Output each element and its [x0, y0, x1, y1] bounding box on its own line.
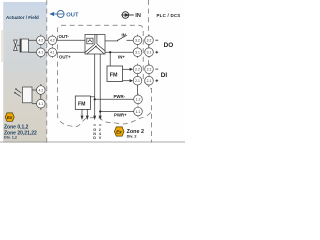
svg-text:Div. 1,2: Div. 1,2 [4, 136, 17, 140]
svg-text:Ex: Ex [116, 129, 122, 134]
svg-text:PLC / DCS: PLC / DCS [157, 13, 181, 18]
IN header icon [121, 12, 134, 19]
svg-text:2.2: 2.2 [147, 68, 152, 72]
wire FM output to terminal 2.2 [123, 68, 131, 70]
fault monitor FM U2 (left, ground monitoring) [75, 96, 90, 109]
OUT header icon [52, 11, 64, 18]
svg-text:3.2: 3.2 [147, 39, 152, 43]
PLC/DCS separator dashed bottom right (R2) [151, 88, 153, 143]
lower terminal vertical stub [40, 84, 42, 110]
GND rail label (vertical) [94, 124, 96, 126]
jog diagonal between R1 and R2 [144, 82, 151, 89]
terminal 3.2 device side (IN-) [133, 35, 142, 46]
svg-text:Ex: Ex [7, 115, 13, 120]
svg-text:4.2: 4.2 [38, 39, 43, 43]
terminal 2.1 device side (FM) [133, 75, 142, 86]
valve V1 stem link [17, 44, 20, 46]
terminal 1.1 (PWR+) [134, 106, 143, 117]
fault monitor FM U3 (output to DI) [107, 66, 123, 82]
terminal 4.2 device side (OUT-) [48, 35, 57, 46]
wires [29, 36, 138, 116]
terminal 4.1 field side (OUT+) [37, 47, 46, 58]
svg-text:IN+: IN+ [118, 55, 125, 60]
junction on IN+ wire feeding FM U3 [109, 51, 111, 53]
FM U3 output arrowhead to 2.1 [130, 79, 134, 82]
svg-text:DI: DI [161, 72, 168, 79]
terminal 4.1 alternate load [37, 98, 46, 109]
svg-text:4.1: 4.1 [50, 51, 55, 55]
wire FM U2 ground stub 1 [81, 110, 83, 116]
svg-text:2.2: 2.2 [135, 68, 140, 72]
valve V1 solenoid coil box [20, 39, 29, 52]
wire IN- row right segment to terminal 3.2 [127, 39, 134, 41]
warm tint left edge [1, 30, 3, 62]
24V rail label (vertical) [99, 124, 101, 126]
wire lower load bottom [32, 103, 41, 105]
zone boundary dashed line left (L1) [46, 0, 48, 145]
terminal 4.2 field side (OUT-) [37, 35, 46, 46]
Ex icon bottom left [5, 113, 14, 121]
LED E1 emission arrowhead 2 [14, 92, 16, 94]
ground arrow 3 (rail GND) [93, 116, 96, 120]
terminal 2.2 PLC side (FM) [145, 64, 154, 75]
svg-text:3.1: 3.1 [135, 51, 140, 55]
terminal 2.1 PLC side (FM) [145, 75, 154, 86]
svg-text:PWR+: PWR+ [114, 112, 127, 117]
terminal 3.1 device side (IN+) [133, 47, 142, 58]
svg-text:Zone 0,1,2: Zone 0,1,2 [4, 124, 29, 130]
wire FM output to terminal 2.1 [123, 80, 131, 82]
page background [0, 0, 185, 145]
svg-text:Div. 2: Div. 2 [127, 134, 137, 138]
wire OUT- row [29, 39, 86, 41]
PLC/DCS separator dashed top right [148, 0, 150, 87]
wire isolator power rail 2 (24V) [99, 54, 101, 116]
svg-text:FM: FM [78, 102, 86, 108]
wire IN- row left segment [105, 40, 118, 42]
switch S1 blade on IN- line [117, 36, 125, 40]
wire lower load top [32, 89, 41, 91]
LED E1 emission arrowhead 1 [15, 89, 17, 91]
Zone 2 dashed boundary around device [57, 25, 150, 126]
terminal 2.2 device side (FM) [133, 64, 142, 75]
svg-text:FM: FM [110, 72, 118, 78]
wire IN+ row [105, 51, 133, 53]
wire terminal 2.1 to terminal 1.2 [137, 85, 139, 95]
svg-text:PWR-: PWR- [114, 94, 126, 99]
wire isolator power rail 1 (GND) [94, 54, 96, 116]
svg-text:3.2: 3.2 [135, 39, 140, 43]
svg-text:OUT: OUT [66, 13, 79, 19]
Ex icon bottom right [114, 127, 124, 136]
svg-text:3.1: 3.1 [147, 51, 152, 55]
svg-text:OUT-: OUT- [59, 34, 70, 39]
valve V1 body (bowtie) [14, 40, 18, 51]
wire OUT+ row [29, 51, 86, 53]
svg-text:D: D [93, 136, 96, 140]
wire PWR- to terminal 1.2 [95, 98, 134, 100]
FM feed vertical [109, 52, 111, 66]
wire FM U2 ground stub 2 [86, 110, 88, 116]
svg-text:IN: IN [135, 13, 141, 19]
svg-text:DO: DO [164, 42, 174, 49]
wire labels [59, 33, 128, 118]
Zone 2 label [127, 129, 144, 138]
svg-text:2.1: 2.1 [147, 79, 152, 83]
svg-text:IN-: IN- [122, 33, 128, 38]
svg-text:4.2: 4.2 [38, 88, 43, 92]
svg-text:Actuator / Field: Actuator / Field [6, 15, 39, 20]
terminal 3.1 PLC side (IN+) [145, 47, 154, 58]
svg-text:4.1: 4.1 [38, 102, 43, 106]
svg-text:4.2: 4.2 [50, 39, 55, 43]
ground arrow 4 (rail 24V) [99, 116, 102, 120]
svg-text:1.1: 1.1 [136, 110, 141, 114]
bottom border line [0, 141, 185, 143]
wire PWR+ to terminal 1.1 [100, 111, 134, 113]
junction on rail 1 at PWR- wire [94, 98, 96, 100]
svg-text:2.1: 2.1 [135, 79, 140, 83]
terminal 4.2 alternate load [37, 84, 46, 95]
terminal 3.2 PLC side (IN-) [145, 35, 154, 46]
svg-text:OUT+: OUT+ [59, 55, 71, 60]
field area strip [3, 2, 47, 143]
hazardous zone labels (Zone 0,1,2 / 20,21,22 / Div. 1,2) [4, 124, 37, 139]
svg-text:1.2: 1.2 [136, 98, 141, 102]
LED alternate load E1 [15, 87, 32, 103]
isolator U1 (3-port isolated solenoid driver symbol) [85, 35, 105, 55]
ground arrow 1 (FM) [81, 116, 84, 120]
wire FM U2 to rail connector [90, 96, 94, 98]
ground arrow 2 (FM) [86, 116, 89, 120]
terminal 4.1 device side (OUT+) [48, 47, 57, 58]
terminal 1.2 (PWR-) [134, 94, 143, 105]
polarity marks - / + for DO and DI [155, 40, 158, 82]
FM U3 output arrowhead to 2.2 [130, 68, 134, 71]
junction on rail 2 at PWR+ wire [99, 110, 101, 112]
svg-text:4.1: 4.1 [38, 51, 43, 55]
